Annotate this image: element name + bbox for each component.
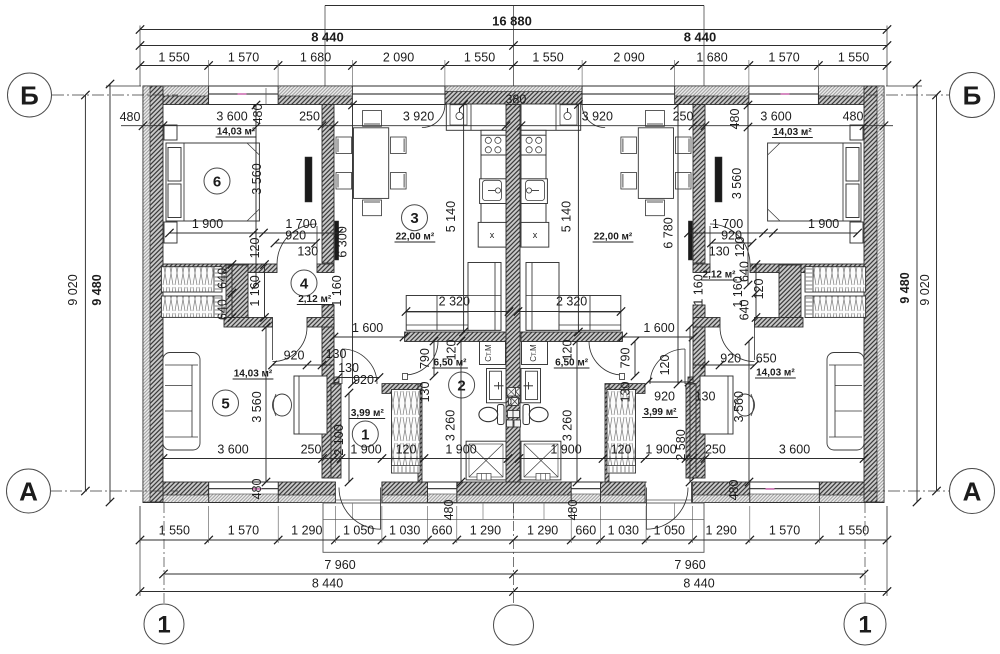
svg-text:790: 790 — [418, 348, 432, 369]
svg-text:14,03 м²: 14,03 м² — [773, 127, 812, 138]
svg-text:3 260: 3 260 — [444, 410, 458, 441]
svg-text:2 320: 2 320 — [556, 295, 587, 309]
svg-text:250: 250 — [705, 443, 726, 457]
svg-text:640: 640 — [216, 268, 230, 289]
svg-text:920: 920 — [353, 373, 374, 387]
svg-text:480: 480 — [250, 479, 264, 500]
svg-text:2 090: 2 090 — [613, 51, 644, 65]
svg-text:4: 4 — [300, 275, 309, 292]
svg-text:1 290: 1 290 — [470, 524, 501, 538]
svg-text:920: 920 — [285, 229, 306, 243]
svg-text:3,99 м²: 3,99 м² — [644, 407, 678, 418]
svg-text:2,12 м²: 2,12 м² — [298, 294, 332, 305]
svg-text:120: 120 — [611, 443, 632, 457]
svg-text:480: 480 — [843, 110, 864, 124]
svg-text:640: 640 — [737, 300, 751, 321]
svg-text:6: 6 — [213, 173, 221, 190]
svg-text:Ст.М: Ст.М — [484, 344, 493, 362]
svg-text:14,03 м²: 14,03 м² — [234, 369, 273, 380]
svg-text:1 550: 1 550 — [838, 524, 869, 538]
svg-text:1 290: 1 290 — [706, 524, 737, 538]
svg-text:1 550: 1 550 — [158, 51, 189, 65]
svg-text:130: 130 — [709, 245, 730, 259]
svg-text:3 600: 3 600 — [217, 443, 248, 457]
svg-text:9 480: 9 480 — [898, 272, 912, 303]
svg-text:120: 120 — [396, 443, 417, 457]
svg-text:130: 130 — [619, 382, 633, 403]
svg-text:250: 250 — [299, 110, 320, 124]
svg-text:1 550: 1 550 — [464, 51, 495, 65]
svg-text:1 030: 1 030 — [389, 524, 420, 538]
svg-text:1: 1 — [361, 426, 369, 443]
svg-text:6 300: 6 300 — [336, 226, 350, 257]
svg-text:120: 120 — [248, 238, 262, 259]
svg-text:640: 640 — [737, 261, 751, 282]
svg-text:22,00 м²: 22,00 м² — [594, 232, 633, 243]
svg-text:380: 380 — [505, 93, 526, 107]
svg-text:1 160: 1 160 — [330, 275, 344, 306]
svg-text:480: 480 — [566, 500, 580, 521]
svg-text:1 600: 1 600 — [643, 321, 674, 335]
svg-text:9 480: 9 480 — [90, 274, 104, 305]
svg-text:920: 920 — [284, 349, 305, 363]
svg-text:1: 1 — [858, 612, 871, 639]
svg-text:8 440: 8 440 — [683, 577, 714, 591]
svg-text:1 290: 1 290 — [291, 524, 322, 538]
svg-text:480: 480 — [442, 500, 456, 521]
svg-text:250: 250 — [301, 443, 322, 457]
svg-text:130: 130 — [326, 347, 347, 361]
svg-text:8 440: 8 440 — [311, 30, 344, 45]
svg-text:3 920: 3 920 — [582, 110, 613, 124]
svg-text:1 900: 1 900 — [550, 443, 581, 457]
svg-text:14,03 м²: 14,03 м² — [756, 368, 795, 379]
svg-text:Б: Б — [963, 80, 982, 110]
svg-text:1 600: 1 600 — [352, 321, 383, 335]
svg-text:5: 5 — [221, 395, 229, 412]
svg-text:1 570: 1 570 — [768, 51, 799, 65]
svg-text:7 960: 7 960 — [674, 558, 705, 572]
svg-text:480: 480 — [727, 480, 741, 501]
svg-text:3 600: 3 600 — [779, 443, 810, 457]
svg-text:920: 920 — [720, 352, 741, 366]
svg-text:120: 120 — [561, 340, 575, 361]
svg-text:3 260: 3 260 — [561, 410, 575, 441]
svg-text:1 550: 1 550 — [838, 51, 869, 65]
svg-text:120: 120 — [752, 279, 766, 300]
svg-text:480: 480 — [728, 109, 742, 130]
svg-text:660: 660 — [432, 524, 453, 538]
svg-text:1 550: 1 550 — [159, 524, 190, 538]
svg-text:9 020: 9 020 — [918, 274, 932, 305]
svg-text:1 680: 1 680 — [300, 51, 331, 65]
svg-text:480: 480 — [251, 104, 265, 125]
svg-text:130: 130 — [297, 245, 318, 259]
svg-text:2 090: 2 090 — [383, 51, 414, 65]
svg-text:120: 120 — [733, 237, 747, 258]
svg-text:2 100: 2 100 — [332, 424, 346, 455]
svg-text:3 560: 3 560 — [732, 391, 746, 422]
svg-text:14,03 м²: 14,03 м² — [217, 127, 256, 138]
svg-text:А: А — [19, 476, 38, 506]
svg-text:2 320: 2 320 — [439, 295, 470, 309]
svg-text:3,99 м²: 3,99 м² — [351, 408, 385, 419]
svg-text:1 160: 1 160 — [248, 275, 262, 306]
svg-text:1: 1 — [157, 612, 170, 639]
svg-text:1 570: 1 570 — [769, 524, 800, 538]
svg-text:1 050: 1 050 — [654, 524, 685, 538]
svg-text:Б: Б — [20, 80, 39, 110]
svg-text:640: 640 — [216, 299, 230, 320]
svg-text:Ст.М: Ст.М — [529, 344, 538, 362]
svg-text:А: А — [963, 476, 982, 506]
svg-text:130: 130 — [418, 382, 432, 403]
svg-text:1 900: 1 900 — [192, 217, 223, 231]
svg-text:x: x — [490, 230, 495, 240]
svg-text:1 290: 1 290 — [527, 524, 558, 538]
svg-text:1 050: 1 050 — [343, 524, 374, 538]
svg-text:5 140: 5 140 — [560, 201, 574, 232]
svg-text:120: 120 — [445, 340, 459, 361]
svg-text:650: 650 — [756, 352, 777, 366]
svg-text:16 880: 16 880 — [492, 14, 532, 29]
svg-text:5 140: 5 140 — [444, 201, 458, 232]
svg-text:1 900: 1 900 — [645, 443, 676, 457]
svg-text:1 550: 1 550 — [532, 51, 563, 65]
svg-text:660: 660 — [575, 524, 596, 538]
svg-text:120: 120 — [658, 355, 672, 376]
svg-text:22,00 м²: 22,00 м² — [396, 232, 435, 243]
svg-text:920: 920 — [654, 390, 675, 404]
svg-text:3: 3 — [410, 210, 418, 227]
svg-text:8 440: 8 440 — [684, 30, 717, 45]
svg-text:7 960: 7 960 — [324, 558, 355, 572]
svg-text:2: 2 — [457, 377, 465, 394]
svg-text:1 030: 1 030 — [608, 524, 639, 538]
svg-text:1 900: 1 900 — [445, 443, 476, 457]
svg-text:480: 480 — [120, 110, 141, 124]
svg-text:1 680: 1 680 — [696, 51, 727, 65]
svg-text:3 920: 3 920 — [403, 110, 434, 124]
svg-text:9 020: 9 020 — [66, 274, 80, 305]
svg-text:3 560: 3 560 — [250, 163, 264, 194]
svg-text:790: 790 — [619, 348, 633, 369]
svg-text:3 560: 3 560 — [250, 391, 264, 422]
svg-text:3 560: 3 560 — [730, 168, 744, 199]
svg-text:1 900: 1 900 — [350, 443, 381, 457]
svg-text:250: 250 — [673, 110, 694, 124]
svg-text:130: 130 — [695, 390, 716, 404]
svg-text:1 570: 1 570 — [228, 51, 259, 65]
svg-text:1 570: 1 570 — [228, 524, 259, 538]
svg-text:3 600: 3 600 — [216, 110, 247, 124]
svg-text:8 440: 8 440 — [312, 577, 343, 591]
svg-text:1 900: 1 900 — [808, 217, 839, 231]
svg-text:1 160: 1 160 — [692, 274, 706, 305]
svg-text:6 780: 6 780 — [662, 217, 676, 248]
svg-text:3 600: 3 600 — [760, 110, 791, 124]
